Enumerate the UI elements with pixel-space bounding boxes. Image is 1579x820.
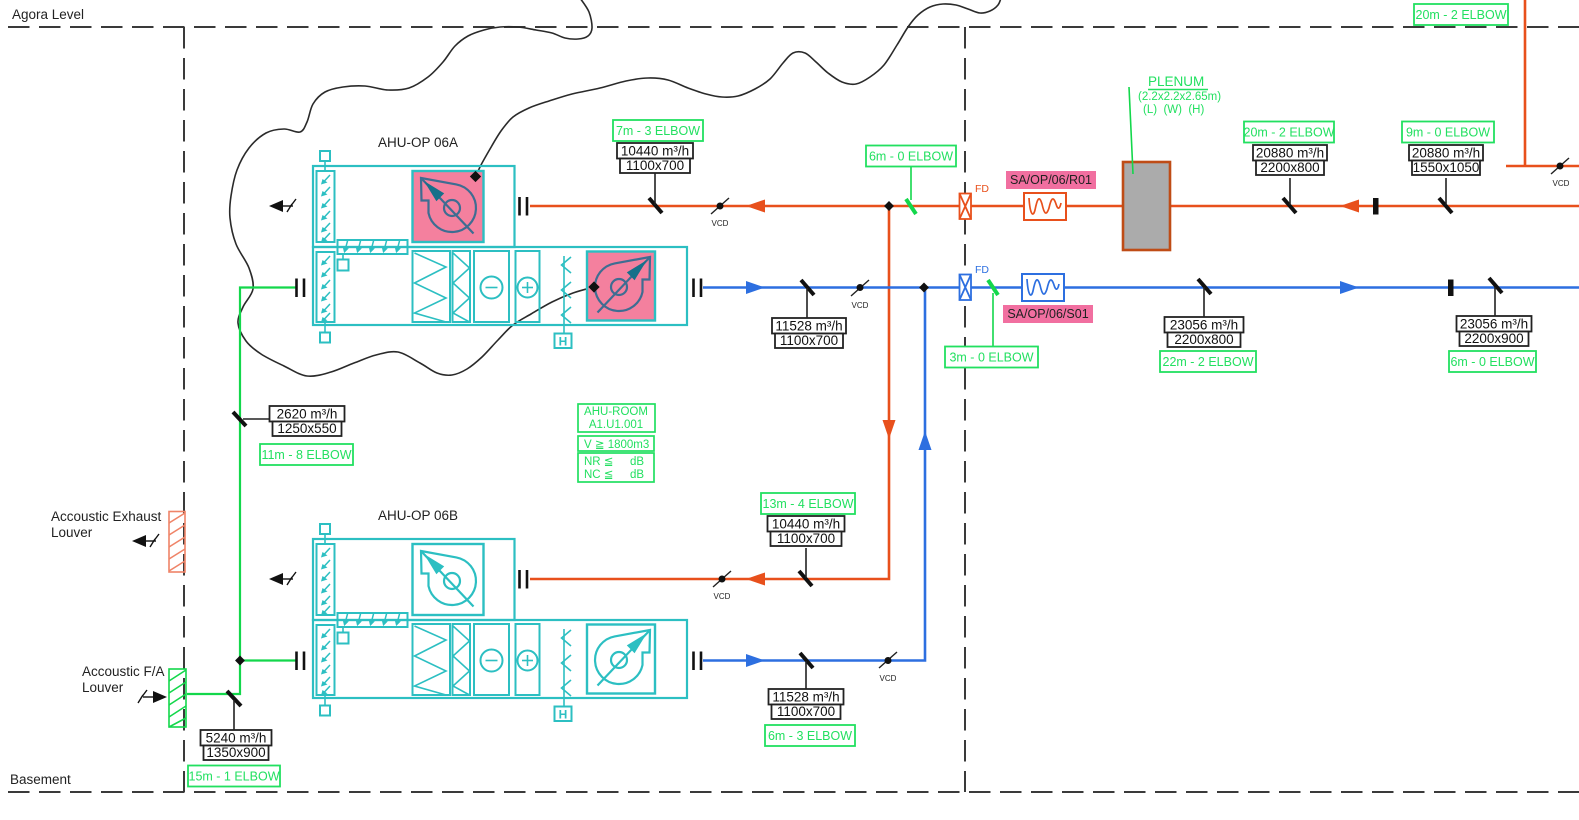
svg-text:NC ≦: NC ≦ bbox=[584, 469, 613, 481]
flow label 11528a bbox=[772, 318, 846, 348]
flow arrow orange down riser bbox=[883, 420, 896, 439]
VCD on blue 06B run bbox=[879, 652, 897, 683]
svg-text:1350x900: 1350x900 bbox=[206, 745, 265, 760]
elbow label 20m-2b bbox=[1244, 122, 1335, 143]
damper on orange main at 10440 label bbox=[649, 198, 662, 213]
leader 20880b box bbox=[1445, 178, 1447, 205]
damper on orange AHU-06B run bbox=[799, 571, 812, 586]
svg-text:FD: FD bbox=[975, 264, 989, 276]
svg-text:Agora Level: Agora Level bbox=[12, 7, 84, 22]
svg-text:3m - 0 ELBOW: 3m - 0 ELBOW bbox=[949, 351, 1033, 365]
elbow label 7m-3 bbox=[613, 120, 703, 141]
leader 20880a box bbox=[1289, 178, 1291, 205]
flow arrow blue up riser bbox=[919, 431, 932, 450]
flow label 20880a bbox=[1253, 145, 1327, 175]
duct blue riser and AHU-06B supply run bbox=[703, 288, 925, 661]
damper on blue main at 23056 2200x800 label bbox=[1198, 279, 1211, 294]
elbow label 9m-0 bbox=[1402, 122, 1494, 143]
green balancing damper on orange main bbox=[906, 199, 916, 214]
flow label 23056a bbox=[1165, 317, 1244, 347]
svg-text:2200x900: 2200x900 bbox=[1464, 331, 1523, 346]
tag label SA/OP/06/R01 bbox=[1006, 171, 1096, 189]
damper on green riser bbox=[233, 412, 246, 426]
svg-text:VCD: VCD bbox=[880, 674, 897, 683]
elbow label 3m-0 bbox=[945, 347, 1038, 368]
leader 11528 box bbox=[806, 288, 808, 318]
elbow label 6m-0b bbox=[1449, 351, 1536, 372]
leader to 5240 box bbox=[233, 700, 235, 730]
VCD on orange 06B run bbox=[713, 571, 731, 601]
svg-text:SA/OP/06/S01: SA/OP/06/S01 bbox=[1007, 307, 1088, 321]
damper on green louver run bbox=[227, 691, 241, 706]
svg-text:11m - 8 ELBOW: 11m - 8 ELBOW bbox=[261, 448, 351, 462]
green balancing damper on blue main bbox=[988, 280, 998, 295]
svg-text:2200x800: 2200x800 bbox=[1174, 332, 1233, 347]
svg-text:Louver: Louver bbox=[51, 525, 93, 540]
svg-text:10440 m³/h: 10440 m³/h bbox=[621, 144, 689, 159]
leader 10440b box bbox=[805, 548, 807, 578]
svg-text:1100x700: 1100x700 bbox=[777, 531, 835, 546]
svg-text:1100x700: 1100x700 bbox=[777, 704, 835, 719]
flow arrow blue right main bbox=[746, 281, 765, 294]
svg-text:(2.2x2.2x2.65m): (2.2x2.2x2.65m) bbox=[1138, 91, 1221, 103]
svg-text:23056 m³/h: 23056 m³/h bbox=[1460, 317, 1528, 332]
elbow label 6m-0a bbox=[866, 146, 956, 167]
svg-text:AHU-OP 06B: AHU-OP 06B bbox=[378, 508, 458, 523]
svg-text:11528 m³/h: 11528 m³/h bbox=[772, 690, 839, 705]
duct joint tick blue main bbox=[1448, 280, 1454, 297]
svg-text:6m - 0 ELBOW: 6m - 0 ELBOW bbox=[869, 150, 953, 164]
node orange junction bbox=[884, 201, 894, 211]
Agora Level dashed line bbox=[8, 26, 1579, 28]
svg-text:13m - 4 ELBOW: 13m - 4 ELBOW bbox=[763, 497, 854, 511]
wire green fresh-air main vertical bbox=[187, 288, 296, 695]
green leader 3m-0 elbow bbox=[992, 293, 994, 346]
svg-text:Louver: Louver bbox=[82, 680, 124, 695]
svg-text:VCD: VCD bbox=[714, 592, 731, 601]
flow arrow orange left far bbox=[1340, 200, 1359, 213]
svg-text:10440 m³/h: 10440 m³/h bbox=[772, 517, 840, 532]
svg-text:6m - 3 ELBOW: 6m - 3 ELBOW bbox=[768, 729, 852, 743]
plenum green leader bbox=[1129, 87, 1133, 174]
AHU-OP 06B unit bbox=[269, 524, 701, 722]
svg-text:20880 m³/h: 20880 m³/h bbox=[1412, 146, 1480, 161]
svg-text:Accoustic F/A: Accoustic F/A bbox=[82, 664, 165, 679]
flow label 10440a bbox=[617, 143, 693, 173]
svg-text:20880 m³/h: 20880 m³/h bbox=[1256, 146, 1324, 161]
svg-text:7m - 3 ELBOW: 7m - 3 ELBOW bbox=[616, 124, 700, 138]
svg-text:2200x800: 2200x800 bbox=[1260, 160, 1319, 175]
damper on blue main at 11528 label bbox=[801, 280, 814, 295]
freehand leader curve to AHU-06A supply fan bbox=[230, 0, 594, 376]
elbow label 13m-4 bbox=[761, 493, 855, 514]
svg-text:1100x700: 1100x700 bbox=[780, 333, 838, 348]
vertical grid dashed line left bbox=[183, 27, 185, 792]
flow label 23056b bbox=[1457, 316, 1532, 346]
damper on blue AHU-06B run bbox=[800, 653, 813, 668]
node blue junction bbox=[919, 283, 929, 293]
elbow label 22m-2 bbox=[1160, 351, 1256, 372]
svg-text:SA/OP/06/R01: SA/OP/06/R01 bbox=[1010, 173, 1092, 187]
leader to 2620 box bbox=[243, 418, 270, 420]
exhaust louver arrow bbox=[132, 535, 146, 547]
elbow label 20m-2a bbox=[1414, 4, 1508, 25]
svg-text:1550x1050: 1550x1050 bbox=[1413, 160, 1480, 175]
svg-text:Accoustic Exhaust: Accoustic Exhaust bbox=[51, 509, 162, 524]
node dot on 06A return fan bbox=[470, 171, 481, 182]
svg-text:22m - 2 ELBOW: 22m - 2 ELBOW bbox=[1163, 355, 1254, 369]
elbow label 6m-3 bbox=[765, 725, 855, 746]
node green junction bbox=[235, 656, 245, 666]
VCD on top-right orange stub bbox=[1551, 158, 1570, 188]
damper on blue main at 23056 2200x900 label bbox=[1489, 278, 1502, 293]
wire green branch to AHU-06B bbox=[240, 659, 296, 661]
svg-text:PLENUM: PLENUM bbox=[1148, 74, 1204, 89]
flow arrow orange left main bbox=[746, 200, 765, 213]
elbow label 15m-1 bbox=[188, 766, 280, 787]
svg-text:9m - 0 ELBOW: 9m - 0 ELBOW bbox=[1406, 126, 1490, 140]
svg-text:VCD: VCD bbox=[852, 301, 869, 310]
fire damper FD on orange main bbox=[960, 194, 972, 220]
flow arrow blue right AHU-06B run bbox=[746, 654, 765, 667]
svg-text:20m - 2 ELBOW: 20m - 2 ELBOW bbox=[1416, 8, 1507, 22]
leader 23056b box bbox=[1494, 287, 1496, 316]
svg-text:AHU-ROOM: AHU-ROOM bbox=[584, 406, 648, 418]
flow label 2620 bbox=[270, 406, 345, 436]
svg-text:V ≧ 1800m3: V ≧ 1800m3 bbox=[584, 439, 649, 451]
freehand leader curve from AHU-06A return fan bbox=[475, 0, 1001, 178]
svg-text:15m - 1 ELBOW: 15m - 1 ELBOW bbox=[189, 770, 280, 784]
leader 23056a box bbox=[1203, 287, 1205, 317]
VCD on orange main bbox=[711, 198, 729, 228]
tag label SA/OP/06/S01 bbox=[1003, 305, 1093, 323]
duct joint tick orange main bbox=[1373, 198, 1379, 215]
plenum box bbox=[1123, 162, 1170, 250]
fresh air louver arrow bbox=[153, 691, 167, 703]
VCD on blue main bbox=[851, 280, 869, 310]
elbow label 11m-8 bbox=[260, 444, 353, 465]
svg-text:dB: dB bbox=[630, 469, 644, 481]
svg-text:(L) (W) (H): (L) (W) (H) bbox=[1143, 104, 1204, 116]
accoustic exhaust louver hatch bbox=[169, 512, 185, 573]
svg-text:A1.U1.001: A1.U1.001 bbox=[589, 419, 643, 431]
svg-text:dB: dB bbox=[630, 456, 644, 468]
svg-text:20m - 2 ELBOW: 20m - 2 ELBOW bbox=[1244, 126, 1335, 140]
svg-text:2620 m³/h: 2620 m³/h bbox=[277, 407, 338, 422]
fire damper FD on blue main bbox=[960, 275, 972, 301]
flow arrow orange left AHU-06B run bbox=[746, 573, 765, 586]
svg-text:1250x550: 1250x550 bbox=[277, 421, 336, 436]
AHU-OP 06A unit bbox=[269, 151, 701, 349]
leader 11528b box bbox=[805, 661, 807, 689]
flow label 11528b bbox=[769, 689, 844, 719]
svg-text:1100x700: 1100x700 bbox=[626, 158, 684, 173]
svg-text:5240 m³/h: 5240 m³/h bbox=[206, 731, 267, 746]
svg-text:AHU-OP 06A: AHU-OP 06A bbox=[378, 135, 458, 150]
damper on orange main at 20880 1550x1050 label bbox=[1439, 198, 1452, 213]
duct orange return main bbox=[530, 205, 1579, 208]
vertical grid dashed line right bbox=[964, 27, 966, 792]
svg-text:Basement: Basement bbox=[10, 772, 71, 787]
duct orange riser and AHU-06B return run bbox=[530, 206, 889, 579]
attenuator on orange main bbox=[1024, 193, 1066, 220]
svg-text:FD: FD bbox=[975, 183, 989, 195]
accoustic fresh air louver hatch bbox=[169, 669, 186, 727]
leader 10440 box bbox=[654, 173, 656, 205]
green leader 6m-0 elbow bbox=[910, 167, 912, 200]
svg-text:23056 m³/h: 23056 m³/h bbox=[1170, 318, 1238, 333]
svg-text:6m - 0 ELBOW: 6m - 0 ELBOW bbox=[1450, 355, 1534, 369]
attenuator on blue main bbox=[1022, 274, 1064, 301]
flow label 5240 bbox=[201, 730, 272, 760]
flow arrow blue right far bbox=[1340, 281, 1359, 294]
plenum label bbox=[1138, 74, 1221, 116]
flow label 10440b bbox=[768, 516, 845, 546]
svg-text:VCD: VCD bbox=[712, 219, 729, 228]
AHU room label box bbox=[578, 404, 655, 482]
node dot on 06A supply fan bbox=[588, 281, 599, 292]
svg-text:11528 m³/h: 11528 m³/h bbox=[775, 319, 842, 334]
svg-text:VCD: VCD bbox=[1553, 179, 1570, 188]
duct orange top-right riser bbox=[1506, 0, 1579, 166]
Basement dashed line bbox=[8, 791, 1579, 793]
svg-text:NR ≦: NR ≦ bbox=[584, 456, 613, 468]
damper on orange main at 20880 2200x800 label bbox=[1283, 198, 1296, 213]
duct blue supply main bbox=[703, 286, 1579, 289]
flow label 20880b bbox=[1409, 145, 1483, 175]
